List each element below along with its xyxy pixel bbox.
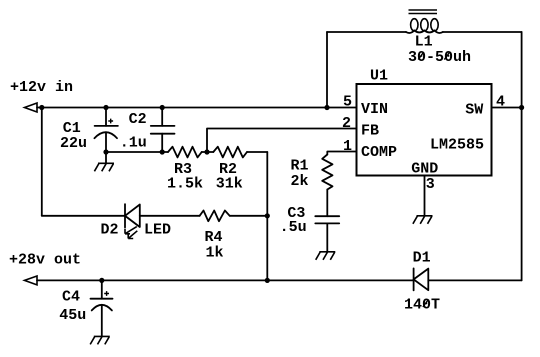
node dot +12v/C1: [103, 105, 108, 110]
capacitor C1: [94, 108, 118, 153]
svg-text:2: 2: [342, 115, 351, 132]
wire FB net: [207, 129, 357, 153]
svg-text:5: 5: [343, 94, 352, 111]
node dot +12v/left branch: [39, 105, 44, 110]
wire right vertical rail: [521, 32, 523, 280]
svg-text:C4: C4: [62, 288, 80, 305]
svg-text:31k: 31k: [216, 176, 243, 193]
resistor R3: [168, 147, 202, 158]
resistor R2: [213, 147, 247, 158]
svg-text:1.5k: 1.5k: [167, 176, 203, 193]
capacitor C3: [315, 216, 339, 252]
svg-text:LED: LED: [144, 221, 171, 238]
node dot R4/vertical: [265, 213, 270, 218]
svg-text:COMP: COMP: [361, 144, 397, 161]
capacitor C4: [91, 280, 113, 336]
wire C1-C2 bottom rail: [106, 151, 168, 153]
wire L1 left horizontal: [327, 31, 406, 33]
svg-text:FB: FB: [361, 123, 379, 140]
svg-text:D1: D1: [413, 250, 431, 267]
svg-text:.1u: .1u: [120, 135, 147, 152]
svg-text:LM2585: LM2585: [430, 136, 484, 153]
wire LED row left: [42, 215, 125, 217]
node dot R3/R2/FB: [204, 149, 209, 154]
svg-text:VIN: VIN: [361, 101, 388, 118]
svg-text:+28v out: +28v out: [9, 252, 81, 269]
LED D2: [125, 204, 140, 238]
wire R1 to C3: [326, 190, 328, 217]
svg-text:+12v in: +12v in: [10, 79, 73, 96]
wire L1 right horizontal: [443, 31, 522, 33]
svg-text:C2: C2: [129, 111, 147, 128]
ground (C3): [316, 252, 336, 260]
wire R2 to right corner: [247, 151, 267, 153]
svg-text:2k: 2k: [291, 173, 309, 190]
wire SW pin to right rail: [492, 107, 522, 109]
wire left vertical branch: [41, 108, 43, 216]
slashed zero mark 140T: [423, 300, 428, 307]
svg-text:1: 1: [343, 138, 352, 155]
resistor R1: [322, 155, 332, 190]
node dot +12v/C2: [160, 105, 165, 110]
wire L1 left vertical: [326, 32, 328, 108]
svg-text:L1: L1: [415, 34, 433, 51]
svg-text:SW: SW: [465, 102, 483, 119]
svg-text:U1: U1: [370, 68, 388, 85]
wire R3-R2: [202, 151, 214, 153]
ground (C4): [90, 336, 110, 344]
node dot +28v/C4: [99, 278, 104, 283]
svg-text:45u: 45u: [59, 307, 86, 324]
svg-text:R4: R4: [205, 229, 223, 246]
capacitor C2: [151, 108, 175, 153]
ground (pin 3): [413, 216, 433, 224]
node dot C2 bottom: [160, 149, 165, 154]
svg-text:1k: 1k: [206, 245, 224, 262]
svg-text:140T: 140T: [404, 296, 440, 313]
wire feedback vertical: [266, 152, 268, 280]
IC U1 box: [357, 84, 492, 176]
node dot +28v/feedback: [265, 278, 270, 283]
wire LED to R4: [140, 215, 200, 217]
svg-text:.5u: .5u: [280, 219, 307, 236]
output arrow (+28v): [25, 276, 38, 285]
wire +12v rail: [37, 107, 357, 109]
wire D1 to right rail: [428, 279, 521, 281]
svg-text:30-50uh: 30-50uh: [408, 49, 471, 66]
svg-text:3: 3: [426, 176, 435, 193]
wire R4 to corner: [230, 215, 268, 217]
slashed zero marks 30-50uh: [418, 52, 450, 59]
wire COMP net: [327, 152, 356, 155]
wire +28v rail: [37, 279, 414, 281]
svg-text:22u: 22u: [60, 135, 87, 152]
svg-text:D2: D2: [101, 221, 119, 238]
node dot +12v/L1: [324, 105, 329, 110]
resistor R4: [200, 211, 230, 222]
ground (C1/C2): [94, 152, 114, 171]
node dot SW/right rail: [519, 105, 524, 110]
node dot C1 bottom: [103, 149, 108, 154]
wire GND pin 3: [424, 176, 426, 216]
svg-text:R1: R1: [291, 157, 309, 174]
input arrow (+12v): [25, 103, 38, 112]
diode D1: [414, 268, 429, 290]
inductor L1: [406, 10, 443, 33]
